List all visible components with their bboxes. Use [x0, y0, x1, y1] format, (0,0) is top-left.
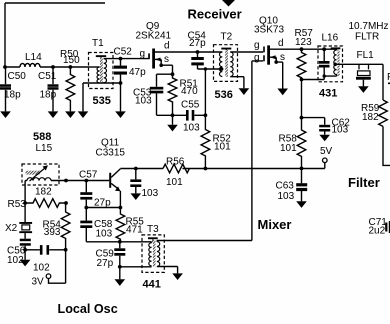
capacitor C56 — [7, 239, 31, 266]
capacitor C71 — [369, 217, 390, 237]
svg-text:18p: 18p — [4, 90, 21, 101]
transistor Q10 — [254, 15, 285, 88]
capacitor C54 — [188, 30, 222, 69]
svg-text:C57: C57 — [79, 170, 98, 181]
resistor R55 — [116, 208, 144, 242]
coil assembly L16 — [302, 32, 343, 82]
ground R50 — [65, 111, 76, 118]
ground collector bypass — [131, 193, 142, 200]
wire C52 ground leg — [120, 83, 122, 111]
svg-text:123: 123 — [295, 37, 312, 48]
svg-text:101: 101 — [280, 143, 297, 154]
svg-text:FLTR: FLTR — [355, 31, 379, 42]
ground T1 — [78, 111, 89, 118]
terminal 5V — [320, 146, 333, 168]
capacitor C59 — [96, 242, 126, 269]
terminal 3V — [32, 250, 66, 288]
svg-text:10.7MHz: 10.7MHz — [349, 21, 389, 32]
transformer T2 — [214, 32, 238, 82]
svg-text:103: 103 — [142, 188, 159, 199]
resistor R57 — [295, 28, 314, 79]
svg-text:C50: C50 — [8, 71, 27, 82]
wire R57 bottom column — [301, 80, 303, 118]
svg-text:s: s — [164, 54, 169, 65]
resistor R58 — [279, 118, 306, 169]
svg-text:d: d — [278, 38, 284, 49]
wire AGC column to R52 — [204, 69, 206, 115]
wire Q10 drain rail — [270, 48, 337, 50]
node T2 tap — [220, 67, 224, 71]
svg-text:471: 471 — [126, 225, 143, 236]
resistor R50 — [60, 49, 80, 111]
capacitor C58 — [80, 208, 120, 242]
svg-text:150: 150 — [63, 55, 80, 66]
svg-text:27p: 27p — [97, 258, 114, 269]
capacitor C53 — [133, 74, 173, 115]
resistor R51 — [168, 74, 198, 115]
wire T1 secondary to Q9 gate — [104, 58, 150, 60]
capacitor C57 — [79, 170, 111, 209]
svg-text:Mixer: Mixer — [258, 217, 292, 232]
svg-text:470: 470 — [181, 86, 198, 97]
wire base line — [51, 180, 109, 182]
transistor Q9 — [136, 21, 173, 74]
svg-text:X2: X2 — [5, 223, 18, 234]
resistor R53 — [8, 187, 68, 210]
capacitor C52 — [114, 47, 147, 85]
svg-text:431: 431 — [319, 88, 337, 100]
wire L16 tap to FL1 — [335, 63, 383, 65]
svg-text:FL1: FL1 — [357, 50, 375, 61]
svg-text:d: d — [164, 41, 170, 52]
ground C56 node — [24, 250, 26, 260]
ground Q10 source — [277, 89, 288, 96]
wire T1 bottom line — [83, 82, 121, 84]
svg-text:g: g — [140, 49, 146, 60]
svg-text:g: g — [254, 52, 260, 63]
svg-text:536: 536 — [215, 89, 233, 101]
svg-text:s: s — [280, 52, 285, 63]
wire T3 secondary bottom to ground — [157, 267, 178, 274]
ground C52 — [115, 111, 126, 118]
svg-text:535: 535 — [93, 95, 111, 107]
svg-text:2u2: 2u2 — [369, 226, 386, 237]
svg-text:102: 102 — [33, 262, 50, 273]
wire T2 secondary top to Q10 g1 — [230, 51, 263, 53]
capacitor collector bypass 103 — [130, 169, 158, 199]
ground C51 — [48, 111, 59, 118]
wire node to T3 primary — [120, 241, 152, 243]
svg-text:L14: L14 — [25, 52, 42, 63]
svg-text:3SK73: 3SK73 — [254, 25, 284, 36]
wire T3 secondary top to mixer — [157, 240, 252, 242]
wire antenna input vertical — [4, 3, 6, 67]
inductor L14 — [20, 63, 40, 67]
wire T1 primary to rail — [89, 66, 100, 68]
svg-text:103: 103 — [96, 229, 113, 240]
crystal X2 — [5, 203, 32, 239]
wire Q9 drain rail — [155, 51, 222, 53]
svg-text:g: g — [254, 40, 260, 51]
svg-text:T2: T2 — [221, 32, 233, 43]
ground C50 — [0, 111, 11, 118]
svg-text:103: 103 — [135, 95, 152, 106]
svg-text:588: 588 — [33, 131, 51, 143]
ground FL1 — [358, 86, 369, 93]
transformer T3 — [142, 224, 164, 273]
capacitor C63 — [276, 168, 308, 201]
svg-text:Filter: Filter — [348, 175, 380, 190]
wire C62 branch — [302, 118, 325, 125]
ground C63 — [296, 201, 307, 208]
svg-text:393: 393 — [44, 227, 61, 238]
ground T2 — [239, 88, 250, 95]
resistor R59 — [361, 100, 387, 126]
wire T1 ground leg — [82, 83, 84, 111]
svg-text:T3: T3 — [147, 224, 159, 235]
capacitor C51 — [38, 65, 59, 111]
ground C59 node — [119, 267, 121, 280]
svg-text:C51: C51 — [38, 71, 57, 82]
resistor R54 — [43, 203, 70, 250]
svg-text:101: 101 — [214, 142, 231, 153]
svg-text:182: 182 — [35, 187, 52, 198]
svg-text:L16: L16 — [322, 32, 339, 43]
svg-text:103: 103 — [183, 123, 200, 134]
wire Q10 g2 column — [252, 61, 263, 241]
wire node A — [86, 207, 120, 209]
wire main rail left — [5, 66, 89, 68]
svg-text:18p: 18p — [40, 90, 57, 101]
svg-text:103: 103 — [332, 125, 349, 136]
capacitor C50 — [0, 67, 26, 111]
node top rail junction — [3, 65, 7, 69]
svg-text:3V: 3V — [32, 277, 45, 288]
wire T2 secondary bottom to ground — [230, 77, 244, 89]
resistor R52 — [201, 115, 231, 168]
svg-text:441: 441 — [143, 279, 161, 291]
coil L15 variable — [22, 143, 59, 203]
svg-text:182: 182 — [362, 112, 379, 123]
svg-text:C3315: C3315 — [96, 148, 126, 159]
ground R51/C53 node — [172, 115, 174, 125]
transformer T1 — [89, 38, 114, 89]
svg-text:R56: R56 — [166, 156, 185, 167]
svg-text:C55: C55 — [181, 99, 200, 110]
svg-text:47p: 47p — [129, 67, 146, 78]
wire FL1 output down — [382, 64, 384, 100]
resistor R56 — [163, 156, 189, 188]
svg-text:C52: C52 — [114, 47, 133, 58]
svg-text:Local Osc: Local Osc — [58, 302, 118, 316]
capacitor 102 bypass — [25, 245, 66, 273]
ground T3 — [172, 273, 183, 280]
svg-text:T1: T1 — [92, 38, 104, 49]
filter FL1 — [356, 50, 374, 87]
wire T3 primary bottom — [120, 266, 152, 268]
svg-text:R53: R53 — [8, 199, 27, 210]
capacitor C62 — [319, 118, 350, 136]
wire supply rail — [120, 168, 324, 170]
wire R59 to edge — [383, 126, 390, 165]
svg-text:L15: L15 — [36, 143, 53, 154]
svg-text:5V: 5V — [320, 146, 333, 157]
wire top horizontal — [5, 2, 105, 4]
capacitor C55 — [157, 99, 206, 133]
svg-text:101: 101 — [166, 177, 183, 188]
transistor Q11 — [96, 137, 126, 207]
svg-text:103: 103 — [278, 191, 295, 202]
arrow receiver input — [222, 0, 235, 7]
svg-text:Receiver: Receiver — [188, 7, 242, 22]
ground C62 — [319, 135, 330, 142]
svg-text:27p: 27p — [189, 38, 206, 49]
svg-text:2SK241: 2SK241 — [136, 31, 172, 42]
